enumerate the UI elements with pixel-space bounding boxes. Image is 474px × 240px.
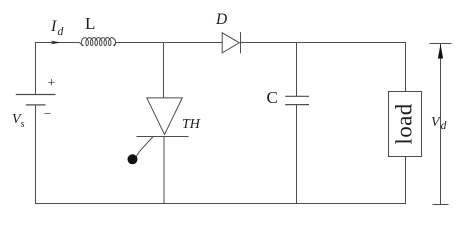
- load box: [389, 92, 422, 157]
- battery Vs short plate: [26, 104, 46, 106]
- wire right branch upper: [405, 42, 407, 92]
- thyristor TH cathode bar: [137, 136, 189, 138]
- Vd bottom bar: [433, 204, 449, 206]
- label load: [389, 91, 422, 156]
- thyristor TH gate dot: [128, 154, 138, 164]
- wire thyristor branch upper: [163, 43, 165, 98]
- diode D: [222, 33, 239, 53]
- label TH: [182, 117, 200, 133]
- wire bottom rail: [35, 203, 406, 205]
- wire top rail mid: [116, 42, 222, 44]
- label D: [216, 11, 227, 29]
- label C: [267, 88, 278, 108]
- capacitor C top plate: [285, 95, 309, 97]
- label Vs: [12, 112, 24, 130]
- capacitor C bottom plate: [285, 104, 309, 106]
- label Id: [51, 18, 63, 39]
- Vd top bar: [430, 43, 452, 45]
- diode D cathode bar: [240, 32, 242, 53]
- label Vd: [431, 115, 446, 133]
- wire capacitor branch upper: [296, 43, 298, 97]
- Vd dimension line: [440, 44, 442, 205]
- wire left branch upper: [35, 42, 37, 95]
- wire top rail right: [241, 42, 407, 44]
- Vd arrow up: [438, 44, 443, 59]
- wire thyristor branch lower: [163, 137, 165, 204]
- label L: [85, 14, 95, 34]
- wire current arrow Id: [51, 41, 62, 45]
- wire capacitor branch lower: [296, 105, 298, 204]
- thyristor TH triangle: [147, 98, 183, 135]
- battery Vs long plate: [16, 94, 56, 96]
- wire left branch lower: [35, 105, 37, 204]
- thyristor TH gate wire: [136, 137, 153, 158]
- inductor L: [79, 38, 116, 46]
- wire right branch lower: [405, 157, 407, 204]
- wire top rail left: [36, 42, 80, 44]
- label battery minus: [44, 106, 51, 122]
- label battery plus: [48, 75, 56, 91]
